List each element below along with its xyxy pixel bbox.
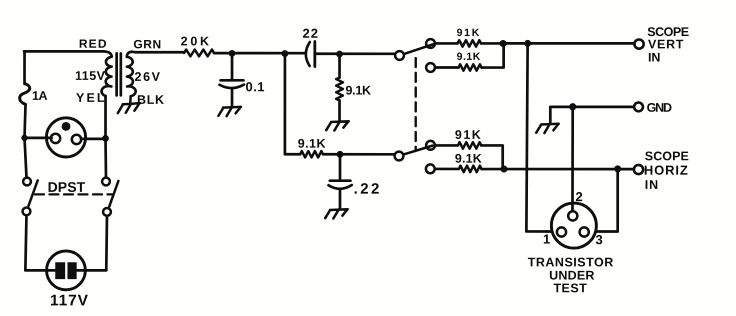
transformer T1 secondary winding — [127, 52, 136, 97]
svg-text:GND: GND — [647, 101, 672, 115]
svg-text:91K: 91K — [457, 27, 480, 39]
svg-text:115V: 115V — [75, 69, 106, 83]
junction: right vertical / socket row — [102, 135, 109, 142]
resistor R1 20K — [184, 50, 214, 57]
junction: drop to transistor pin3 — [614, 165, 621, 172]
switch S2a throw upper — [426, 39, 435, 48]
terminal: SCOPE VERT IN — [634, 39, 643, 48]
wire: rail 22 cap to top switch pole — [315, 52, 395, 55]
wire: R6 down to junction — [481, 145, 502, 169]
svg-text:1: 1 — [543, 232, 550, 247]
svg-text:3: 3 — [595, 232, 602, 247]
resistor R4 91K — [458, 40, 482, 46]
wire: secondary top rail to 20K — [132, 50, 185, 53]
svg-text:SCOPE: SCOPE — [645, 149, 689, 163]
svg-text:2: 2 — [575, 189, 582, 204]
terminal: SCOPE HORIZ IN — [634, 165, 643, 174]
svg-text:9.1K: 9.1K — [298, 137, 326, 151]
wire: socket right lead — [81, 138, 105, 141]
svg-text:RED: RED — [79, 37, 107, 51]
wire: left vertical to plug — [25, 215, 55, 270]
wire: left vertical upper segment — [23, 51, 26, 84]
svg-text:26V: 26V — [135, 70, 161, 84]
ground: under R2 — [326, 121, 349, 130]
svg-text:9.1K: 9.1K — [457, 51, 481, 63]
junction: GND / pin2 drop — [569, 103, 576, 110]
svg-text:1A: 1A — [32, 89, 48, 103]
DPST switch S1: right pole — [102, 178, 118, 216]
switch S2b throw lower — [426, 164, 435, 173]
capacitor C1 0.1 — [220, 53, 245, 106]
svg-text:BLK: BLK — [137, 93, 164, 107]
wire: left vertical from socket to switch pole — [24, 138, 26, 177]
svg-text:.22: .22 — [354, 181, 380, 198]
svg-text:91K: 91K — [455, 128, 481, 142]
junction: lower branch drop — [282, 50, 289, 57]
svg-text:IN: IN — [648, 50, 660, 64]
junction: drop to transistor pin1 — [524, 40, 531, 47]
fuse F1 1A — [20, 84, 30, 105]
wire: right vertical to plug — [77, 216, 107, 271]
svg-text:20K: 20K — [181, 34, 209, 48]
wire: R4 to junction — [481, 42, 503, 45]
plug P1 117V — [47, 251, 86, 290]
wire: right vertical from transformer primary down to socket and switch — [104, 96, 107, 177]
switch S2a pole (top) — [395, 51, 404, 60]
junction: 0.1 branch — [229, 50, 236, 57]
wire: S2a upper throw to R4 — [435, 42, 458, 45]
wire: socket left lead — [24, 137, 51, 140]
wire: rail 20K to 22 cap — [214, 52, 306, 55]
ground: GND rail left end — [536, 124, 559, 133]
wire: R3 to bottom switch pole — [323, 153, 394, 156]
svg-text:117V: 117V — [50, 292, 89, 309]
switch S2a blade — [404, 44, 433, 54]
svg-text:DPST: DPST — [48, 179, 86, 195]
svg-text:IN: IN — [645, 178, 658, 192]
ground: under C1 — [218, 107, 241, 116]
junction: .22 branch — [337, 151, 344, 158]
wire: S2a lower throw to R5 — [435, 66, 459, 69]
wire: horiz rail to SCOPE HORIZ terminal — [481, 168, 634, 171]
svg-text:TRANSISTOR: TRANSISTOR — [528, 255, 614, 269]
junction: R4/R5 — [500, 40, 507, 47]
wire: left vertical from fuse to socket — [25, 104, 26, 138]
transformer T1 primary winding — [102, 51, 112, 96]
transformer T1 core — [117, 53, 121, 95]
svg-text:TEST: TEST — [553, 281, 587, 295]
resistor R6 91K — [458, 142, 481, 148]
wire: R5 up to junction — [482, 43, 504, 67]
wire: pin2 drop from GND rail — [571, 107, 574, 210]
svg-text:VERT: VERT — [648, 37, 684, 51]
wire: GND rail — [550, 107, 634, 123]
wire: vert rail to SCOPE VERT terminal — [503, 42, 634, 45]
switch S2b pole (bottom) — [395, 152, 404, 161]
ground: under C3 — [325, 209, 348, 218]
svg-text:9.1K: 9.1K — [455, 152, 482, 166]
junction: left wire / socket row — [21, 135, 27, 141]
switch S2a throw lower — [426, 63, 435, 72]
switch S2b blade — [403, 146, 432, 155]
dashed gang link S2 — [415, 58, 417, 151]
junction: 9.1K shunt branch — [336, 51, 343, 58]
wire: 9.1K shunt drop — [338, 54, 341, 78]
resistor R5 9.1K — [459, 64, 482, 70]
junction: R6/R7 — [500, 166, 507, 173]
wire: top-left rail from left vertical to transformer primary — [24, 50, 104, 53]
capacitor C2 22 (series) — [306, 41, 315, 66]
wire: S2b upper throw to R6 — [435, 144, 458, 147]
svg-text:YEL: YEL — [76, 91, 105, 105]
wire: S2b lower throw to R7 — [435, 168, 459, 171]
svg-text:HORIZ: HORIZ — [644, 163, 688, 178]
ground: transformer secondary bottom — [118, 97, 140, 113]
capacitor C3 .22 — [328, 154, 351, 208]
resistor R2 9.1K (shunt) — [336, 77, 343, 100]
wire: lower branch vertical — [285, 54, 300, 155]
switch S2b throw upper — [426, 141, 435, 150]
DPST switch S1: left pole — [23, 178, 38, 216]
wire: pin3 drop from horiz rail — [596, 169, 618, 232]
resistor R3 9.1K (lower series) — [300, 151, 323, 157]
svg-text:0.1: 0.1 — [246, 79, 265, 94]
DPST gang dashed link — [35, 193, 112, 195]
wire: pin1 drop from vert rail — [526, 43, 551, 231]
resistor R7 9.1K — [459, 166, 482, 172]
svg-text:22: 22 — [303, 26, 319, 41]
svg-text:GRN: GRN — [133, 37, 161, 51]
wire: R2 to ground — [338, 100, 341, 120]
svg-text:9.1K: 9.1K — [346, 83, 372, 97]
terminal: GND — [634, 102, 643, 111]
socket J1 (pilot-lamp socket) — [46, 118, 85, 157]
transistor socket (TRANSISTOR UNDER TEST) — [551, 203, 596, 248]
